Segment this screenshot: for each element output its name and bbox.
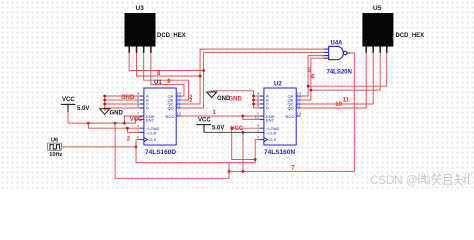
wire U2 QA to U5 pin4 (301, 53, 387, 97)
svg-text:74LS160D: 74LS160D (145, 149, 176, 156)
U2 pin names (266, 94, 294, 143)
svg-text:VCC: VCC (62, 97, 75, 103)
svg-text:DCD_HEX: DCD_HEX (157, 33, 186, 39)
junction vcc feed (254, 158, 257, 161)
svg-text:CLK: CLK (149, 137, 157, 142)
watermark glyph qie (443, 175, 453, 185)
wire U1 RCO to U2 ENB (181, 115, 260, 117)
svg-text:15: 15 (297, 112, 301, 116)
U1 pin numbers (135, 92, 182, 140)
wire U2 QB to U5 pin3 (301, 53, 381, 101)
svg-text:RCO: RCO (166, 114, 175, 119)
svg-text:10: 10 (255, 116, 259, 120)
watermark glyph shi (454, 174, 463, 186)
svg-text:5.0V: 5.0V (212, 126, 224, 132)
wire U2 C from bus (254, 103, 260, 105)
display U3 DCD_HEX body (125, 13, 156, 47)
svg-text:U6: U6 (51, 137, 58, 143)
svg-text:U5: U5 (373, 5, 382, 12)
ground left symbol (100, 108, 110, 114)
junction U2 LOAD (230, 127, 233, 130)
counter U1 74LS160D body (140, 88, 181, 145)
wire U2 QC to U5 pin2 (301, 53, 374, 105)
svg-text:GND: GND (110, 110, 124, 116)
svg-text:74LS160N: 74LS160N (264, 149, 295, 156)
wire U1 D to GND bus (105, 107, 140, 109)
power VCC left symbol (61, 104, 76, 112)
svg-text:RCO: RCO (286, 114, 295, 119)
svg-text:ENT: ENT (266, 117, 275, 122)
display U5 DCD_HEX body (362, 13, 393, 47)
svg-text:GND: GND (229, 96, 243, 102)
wire branch to U1 CLR (127, 128, 139, 132)
svg-text:10Hz: 10Hz (49, 152, 62, 158)
svg-text:15: 15 (177, 112, 181, 116)
svg-text:VCC: VCC (198, 118, 211, 124)
wire reset riser to U2 CLR (242, 132, 244, 171)
junction reset riser top (242, 131, 245, 134)
svg-text:~CLR: ~CLR (146, 130, 156, 135)
wire reset line 7 (229, 53, 354, 171)
clock stub (62, 146, 64, 148)
clock source U6 (48, 143, 62, 150)
svg-text:DCD_HEX: DCD_HEX (396, 33, 425, 39)
svg-text:QD: QD (288, 106, 294, 111)
junction LOAD/CLR (126, 127, 129, 130)
wire U3 pin2 to U1 QC (137, 53, 201, 77)
svg-text:9: 9 (257, 124, 259, 128)
svg-text:1: 1 (137, 128, 139, 132)
junction rail ENB riser (123, 122, 126, 125)
junction reset riser bottom (242, 170, 245, 173)
wire rail branch to U1 ENT (136, 119, 140, 123)
svg-text:2: 2 (189, 98, 192, 104)
svg-text:9: 9 (137, 124, 139, 128)
svg-text:11: 11 (297, 104, 301, 108)
svg-text:6: 6 (257, 104, 259, 108)
wire U6 clock to U1 CLK (63, 146, 136, 148)
wire rail drop to bottom detour (115, 123, 229, 178)
clock wave glyph (49, 145, 60, 149)
junction GND bus C (103, 103, 106, 106)
junction U2 bus B (252, 99, 255, 102)
op-amp U4A NAND gate body (324, 46, 351, 59)
wire U1 C to GND bus (105, 103, 140, 105)
wire gate riser input3 (308, 56, 324, 87)
wire U3 pin3 to U1 QB (144, 53, 189, 101)
wire U1 A to GND bus (105, 95, 140, 97)
svg-text:QD: QD (168, 106, 174, 111)
svg-text:D: D (266, 106, 269, 111)
junction U2 bus A (252, 95, 255, 98)
svg-text:10: 10 (135, 116, 139, 120)
junction rail at x88 (87, 122, 90, 125)
svg-text:2: 2 (257, 136, 259, 140)
wire vertical QC riser to gate input1 (181, 49, 324, 104)
wire rail drop to U1 LOAD (88, 123, 139, 128)
wire U2 B from bus (254, 99, 260, 101)
wire U2 LOAD red (232, 127, 260, 129)
wire U3 pin1 to U1 QD (129, 53, 203, 71)
junction gate riser3 (307, 85, 310, 88)
counter U2 74LS160N body (260, 88, 301, 145)
wire RCO branch to U2 ENT (243, 116, 260, 119)
wire rail riser to U1 ENB (124, 116, 139, 123)
wire U3 pin4 to U1 QA (151, 53, 184, 97)
svg-text:2: 2 (137, 136, 139, 140)
junction RCO branch (241, 115, 244, 118)
GND bus vertical left (104, 96, 106, 111)
svg-text:11: 11 (343, 98, 350, 104)
junction GND bus A (103, 95, 106, 98)
svg-text:5.0V: 5.0V (77, 106, 89, 112)
watermark glyph wei (418, 174, 431, 185)
wire VCC mid to U2 LOAD (dark) (204, 131, 260, 133)
svg-text:6: 6 (137, 104, 139, 108)
svg-text:GND: GND (121, 95, 135, 101)
junction at QC riser (199, 75, 202, 78)
wire U2 QD to U5 pin1 (301, 53, 367, 109)
junction rail at x115 (114, 122, 117, 125)
U1 pin names (146, 94, 174, 143)
svg-text:~CLR: ~CLR (266, 130, 276, 135)
svg-text:D: D (146, 106, 149, 111)
wire vcc feed drop near U2 (232, 128, 256, 159)
junction at QD riser (202, 69, 205, 72)
svg-text:11: 11 (177, 104, 181, 108)
wire clock riser to U1 CLK pin (136, 140, 140, 147)
display U3 pins (129, 47, 151, 53)
junction bottom detour (228, 170, 231, 173)
junction U2 bus C (252, 103, 255, 106)
svg-text:CLK: CLK (269, 137, 277, 142)
junction clock (135, 146, 138, 149)
wire U2 A from bus (254, 95, 260, 97)
svg-text:U2: U2 (274, 82, 282, 88)
svg-text:U4A: U4A (331, 41, 344, 47)
svg-text:10: 10 (335, 102, 342, 108)
svg-text:VCC: VCC (231, 126, 244, 132)
wire gate riser input4 (311, 58, 324, 90)
wire VCC left rail (68, 104, 136, 123)
svg-text:CSDN @: CSDN @ (370, 175, 417, 187)
ground mid symbol (207, 91, 217, 98)
svg-text:U3: U3 (136, 5, 145, 12)
wire mid GND to U2 inputs bus (212, 91, 260, 108)
svg-text:74LS20N: 74LS20N (327, 70, 352, 76)
svg-text:U1: U1 (154, 80, 162, 86)
svg-text:1: 1 (257, 128, 259, 132)
watermark glyph li (463, 174, 470, 185)
svg-text:ENT: ENT (146, 117, 155, 122)
watermark glyph xiao (432, 174, 442, 185)
U2 pin numbers (255, 92, 302, 140)
wire vertical QD riser to gate input2 (181, 52, 324, 108)
display U5 pins (366, 47, 387, 53)
wire clock down to U2 CLK (136, 140, 260, 163)
junction gate riser4 (310, 89, 313, 92)
junction GND bus B (103, 99, 106, 102)
power VCC mid symbol (197, 125, 212, 133)
wire U1 B to GND bus (105, 99, 140, 101)
